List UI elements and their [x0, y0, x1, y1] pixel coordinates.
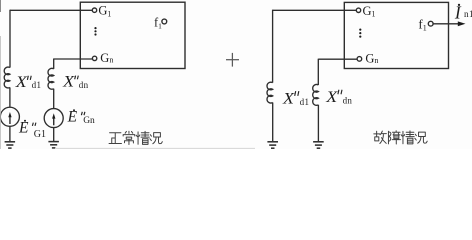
- inductor X"d1 left: [4, 67, 10, 88]
- wire branch R2 down: [317, 59, 319, 85]
- ground L1: [5, 142, 16, 148]
- inductor X"dn left: [48, 68, 54, 89]
- wire R1 coil to ground: [272, 103, 274, 142]
- terminal Gn right: [357, 57, 362, 62]
- svg-text:Gn: Gn: [100, 51, 113, 65]
- inductor X"dn right: [313, 85, 319, 106]
- svg-text:X: X: [325, 89, 338, 106]
- wire fault current: [433, 23, 458, 25]
- terminal G1 right: [356, 8, 360, 12]
- svg-text:G1: G1: [363, 4, 376, 19]
- wire G1 left: [10, 9, 92, 11]
- box network right (fault case): [344, 2, 448, 68]
- source E"Gn circle: [44, 109, 63, 128]
- caption: normal case (hand-drawn hanzi 正常情况): [109, 131, 162, 144]
- svg-text:f1: f1: [418, 17, 426, 33]
- svg-text:d1: d1: [300, 97, 310, 107]
- 常: [123, 131, 135, 144]
- terminal G1 left: [92, 8, 96, 12]
- source E"G1 arrow: [8, 112, 11, 124]
- source E"Gn arrow: [52, 113, 55, 125]
- vertical dots left box: [94, 27, 96, 36]
- ground R1: [267, 142, 278, 148]
- scan artifact: bottom edge: [55, 147, 255, 149]
- label current I_n1: [458, 4, 460, 6]
- wire L1 coil to source: [9, 87, 11, 107]
- svg-text:E: E: [18, 120, 29, 137]
- svg-text:d1: d1: [32, 80, 42, 90]
- ground L2: [48, 142, 59, 148]
- svg-text:dn: dn: [343, 95, 353, 105]
- svg-text:I: I: [454, 3, 462, 23]
- wire branch R1 down: [272, 10, 274, 83]
- wire R2 coil to ground: [317, 105, 319, 141]
- node f1 right terminal: [428, 21, 433, 26]
- 障: [388, 131, 400, 144]
- node f1 left terminal: [162, 19, 167, 24]
- terminal Gn left: [92, 56, 96, 60]
- source E"G1 circle: [0, 107, 19, 126]
- svg-text:X: X: [282, 90, 295, 107]
- wire Gn left: [54, 58, 93, 60]
- svg-text:n1: n1: [464, 9, 472, 19]
- box network left (normal case): [80, 2, 185, 68]
- wire branch L1 down: [9, 10, 11, 68]
- 故: [374, 131, 387, 143]
- wire branch L2 down: [53, 59, 55, 69]
- svg-text:G1: G1: [98, 4, 111, 19]
- 情: [136, 131, 149, 144]
- svg-text:X: X: [62, 74, 75, 91]
- 情: [401, 131, 414, 144]
- svg-text:E: E: [67, 109, 78, 126]
- caption: fault case (hand-drawn hanzi 故障情况): [374, 131, 427, 144]
- svg-text:dn: dn: [79, 80, 89, 90]
- svg-text:X: X: [15, 74, 28, 91]
- wire G1 right: [273, 9, 357, 11]
- wire L2 coil to source: [53, 89, 55, 109]
- scan artifact: left edge: [0, 0, 2, 12]
- vertical dots right box: [359, 29, 361, 38]
- arrowhead fault current: [458, 21, 466, 26]
- 正: [109, 133, 121, 144]
- svg-text:Gn: Gn: [365, 51, 378, 65]
- 况: [150, 133, 162, 144]
- svg-text:f1: f1: [154, 16, 162, 31]
- label E"Gn left: [73, 109, 75, 111]
- inductor X"d1 right: [267, 82, 273, 103]
- wire L1 source to ground: [9, 126, 11, 141]
- svg-text:G1: G1: [34, 129, 46, 140]
- wire Gn right: [318, 58, 357, 60]
- 况: [415, 132, 427, 143]
- label E"G1 left: [24, 120, 26, 122]
- plus sign between circuits: [226, 53, 239, 67]
- ground R2: [313, 142, 324, 148]
- svg-text:Gn: Gn: [83, 116, 95, 126]
- wire L2 source to ground: [53, 128, 55, 142]
